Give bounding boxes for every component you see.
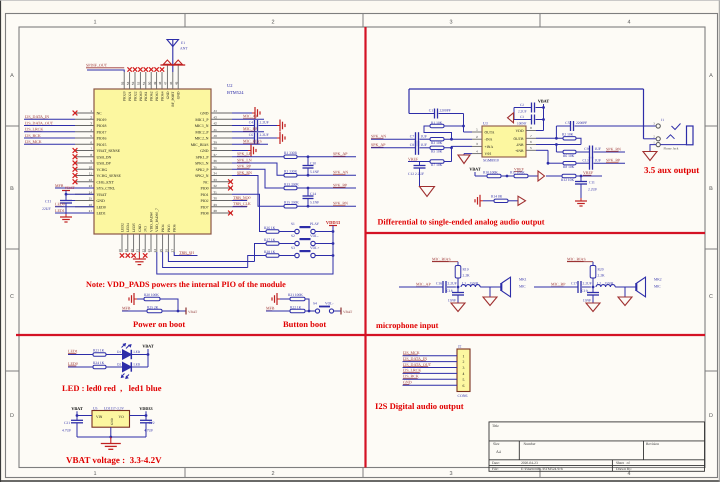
ground right of C4	[277, 120, 285, 132]
svg-text:USB_DN: USB_DN	[97, 155, 112, 159]
wire VDD_PADS rail to VDD33	[157, 252, 333, 274]
zone ticks left	[6, 126, 20, 371]
svg-text:C9: C9	[584, 147, 588, 151]
net label I2S_DATA_OUT wire	[24, 120, 75, 125]
antenna E1	[167, 40, 188, 73]
svg-text:VDD_PADS0: VDD_PADS0	[149, 212, 153, 232]
ground right of C6	[277, 132, 285, 144]
svg-text:R21 100K: R21 100K	[288, 293, 303, 297]
svg-text:GND: GND	[97, 199, 105, 203]
svg-text:43: 43	[214, 115, 218, 119]
net label I2S_LRCK wire to J2	[403, 368, 458, 374]
svg-text:VBAT: VBAT	[188, 310, 198, 314]
svg-text:27: 27	[170, 249, 174, 253]
microphone circuit MK1	[399, 256, 527, 311]
svg-text:3: 3	[449, 471, 452, 477]
svg-text:21: 21	[136, 249, 140, 253]
pushbutton S3 VOL+	[291, 246, 333, 258]
net label I2S_DATA_IN wire	[24, 114, 75, 119]
power VBAT regulator	[71, 406, 83, 417]
led D1 red	[117, 344, 141, 360]
svg-text:SPK1_P: SPK1_P	[196, 155, 209, 159]
svg-text:Button boot: Button boot	[283, 319, 326, 329]
svg-text:40: 40	[214, 134, 218, 138]
svg-text:Differential to single-ended a: Differential to single-ended analog audi…	[378, 218, 545, 227]
svg-text:PIO16: PIO16	[97, 137, 107, 141]
no-connect X marks left pins	[73, 111, 78, 185]
svg-text:31: 31	[214, 190, 218, 194]
svg-text:PIO64: PIO64	[160, 91, 164, 101]
svg-text:29: 29	[214, 203, 218, 207]
resistor R26 1K	[264, 226, 295, 233]
svg-text:C12 2.2UF: C12 2.2UF	[408, 172, 424, 176]
wire VO to VDD33	[130, 414, 148, 417]
svg-text:12: 12	[89, 178, 93, 182]
svg-text:1: 1	[463, 354, 465, 358]
svg-text:PIO17: PIO17	[97, 130, 107, 134]
svg-text:A4: A4	[496, 450, 501, 454]
net label I2S_MCK wire	[24, 139, 75, 144]
svg-text:LED0: LED0	[68, 361, 78, 366]
net label I2S_DATA_OUT wire to J2	[403, 362, 458, 368]
svg-text:18: 18	[118, 249, 122, 253]
svg-text:SPK_RN: SPK_RN	[237, 170, 252, 175]
svg-text:R2 10K: R2 10K	[562, 133, 574, 137]
net label MFB power-on-boot	[122, 306, 147, 311]
svg-text:MIC: MIC	[654, 284, 661, 288]
svg-text:MIC1_P: MIC1_P	[195, 118, 208, 122]
svg-text:3V3: 3V3	[144, 226, 148, 232]
svg-text:15: 15	[89, 197, 93, 201]
net label SPK_RN	[237, 170, 252, 175]
capacitor C21 4.7UF	[62, 416, 83, 438]
svg-text:R11 100K: R11 100K	[510, 170, 525, 174]
net label I2S_BCK wire	[24, 133, 75, 138]
caption LED led0 red led1 blue	[62, 383, 162, 393]
svg-text:B: B	[709, 186, 713, 192]
svg-text:SPK_BN: SPK_BN	[606, 146, 621, 151]
svg-text:VOL+: VOL+	[310, 246, 319, 250]
svg-text:File:: File:	[492, 467, 499, 471]
svg-text:C18: C18	[447, 289, 453, 293]
power VBAT at C11	[62, 186, 75, 194]
svg-text:1: 1	[93, 20, 96, 26]
svg-text:S1: S1	[291, 222, 295, 226]
ic U2 left pins 1-17	[75, 109, 121, 215]
svg-text:28: 28	[214, 209, 218, 213]
svg-text:MIC_AP: MIC_AP	[416, 282, 431, 287]
capacitor C5 2200PF	[556, 121, 656, 131]
power VBAT VREF ladder	[469, 167, 481, 177]
svg-text:MIC_BP: MIC_BP	[551, 282, 566, 287]
title block texts	[492, 424, 659, 471]
caption I2S Digital audio output	[375, 401, 464, 411]
resistor R1 330R	[232, 151, 356, 158]
svg-text:R12 10K: R12 10K	[561, 178, 574, 182]
net label I2S_LRCK wire	[24, 127, 75, 132]
svg-text:L1: L1	[462, 281, 466, 285]
wire VDD_PADS0_7 rail to R28	[163, 252, 248, 268]
svg-text:26: 26	[165, 249, 169, 253]
svg-text:VOL-: VOL-	[325, 301, 334, 305]
svg-text:ANT: ANT	[180, 47, 188, 51]
net label VREF B-side	[583, 170, 594, 175]
svg-text:MFB: MFB	[55, 183, 64, 188]
ground right pin44	[252, 107, 260, 119]
svg-text:PIO62: PIO62	[150, 91, 154, 101]
svg-text:MFB: MFB	[266, 306, 275, 311]
svg-text:54: 54	[126, 81, 130, 85]
wire PIO4 rail to R27	[168, 252, 254, 262]
svg-text:MIC2_P: MIC2_P	[195, 130, 208, 134]
ground triangle jack	[643, 152, 657, 161]
resistor R3a 10K	[430, 138, 472, 145]
svg-text:U3: U3	[483, 122, 488, 126]
capacitor C14 5.1NF	[303, 188, 320, 206]
resistor R11 100K	[510, 170, 538, 177]
caption Button boot	[283, 319, 326, 329]
svg-text:OUTA: OUTA	[485, 131, 495, 135]
wire VBAT pin14	[65, 193, 94, 196]
svg-text:Power on boot: Power on boot	[133, 319, 185, 329]
resistor R23 1K	[93, 349, 123, 357]
resistor R28 1K	[248, 250, 295, 267]
svg-text:33: 33	[214, 178, 218, 182]
red divider vertical	[364, 27, 366, 468]
svg-text:VIN: VIN	[96, 415, 103, 419]
svg-text:S3: S3	[291, 246, 295, 250]
microphone circuit MK2	[534, 256, 662, 311]
svg-text:2.2K: 2.2K	[598, 274, 605, 278]
svg-text:VSS: VSS	[485, 152, 492, 156]
svg-text:PIO8: PIO8	[200, 212, 208, 216]
power VBAT tag power-on-boot	[186, 308, 198, 315]
svg-text:SPK_LN: SPK_LN	[237, 158, 252, 163]
regulator U5 LD1117 body	[92, 407, 130, 428]
svg-text:C: C	[709, 294, 713, 300]
svg-text:D1: D1	[117, 350, 121, 354]
caption VBAT voltage	[66, 455, 162, 465]
resistor R10 100K	[475, 170, 514, 177]
svg-text:C21: C21	[64, 421, 70, 425]
ground left power-on-boot	[129, 293, 137, 305]
ground left button-boot	[272, 293, 280, 305]
svg-text:GND: GND	[138, 224, 142, 232]
svg-text:-INA: -INA	[485, 138, 493, 142]
svg-text:SYS_CTRL: SYS_CTRL	[97, 187, 116, 191]
wire -INB row	[536, 143, 581, 152]
svg-text:C7: C7	[410, 135, 414, 139]
caption Power on boot	[133, 319, 185, 329]
svg-text:PIO63: PIO63	[155, 91, 159, 101]
svg-text:SPK_AP: SPK_AP	[371, 142, 386, 147]
svg-text:SPK_BN: SPK_BN	[333, 201, 348, 206]
svg-text:R3 10K: R3 10K	[431, 141, 443, 145]
resistor R5 10K	[430, 146, 472, 153]
svg-text:VBAT: VBAT	[343, 310, 353, 314]
zone ticks top	[185, 14, 540, 28]
svg-text:1: 1	[93, 471, 96, 477]
svg-text:E:\Bluetooth\..\BTM524.Sch: E:\Bluetooth\..\BTM524.Sch	[521, 467, 563, 471]
svg-text:C16: C16	[436, 282, 442, 286]
svg-text:55: 55	[120, 81, 124, 85]
wire GND pin38 to ground	[232, 150, 248, 152]
svg-text:2.2UF: 2.2UF	[260, 133, 269, 137]
node SPK_BN	[307, 201, 348, 208]
svg-text:MK2: MK2	[654, 277, 662, 281]
svg-text:MIC_BIAS: MIC_BIAS	[243, 139, 262, 144]
svg-text:SGM8910: SGM8910	[483, 159, 499, 163]
svg-text:C22: C22	[149, 421, 155, 425]
wire OUTA node	[462, 114, 472, 133]
svg-text:I2S_LRCK: I2S_LRCK	[403, 368, 421, 373]
svg-text:10: 10	[89, 165, 93, 169]
svg-text:SPK_AN: SPK_AN	[333, 170, 348, 175]
svg-text:VBAT: VBAT	[469, 167, 481, 172]
svg-text:15NH: 15NH	[605, 281, 614, 285]
svg-text:PLAY: PLAY	[310, 222, 319, 226]
svg-text:C19: C19	[582, 289, 588, 293]
svg-text:22: 22	[141, 249, 145, 253]
svg-text:3: 3	[463, 366, 465, 370]
svg-text:MFB: MFB	[122, 306, 131, 311]
wire D1 to VBAT node	[131, 353, 149, 356]
net label SPDIF_OUT and wire	[86, 63, 124, 73]
net label SPK_AN input wire	[371, 134, 416, 140]
svg-text:Title: Title	[492, 424, 499, 428]
svg-text:MK1: MK1	[519, 277, 527, 281]
svg-text:R20 100K: R20 100K	[144, 293, 159, 297]
svg-text:S4: S4	[313, 301, 317, 305]
svg-text:GND: GND	[200, 149, 208, 153]
caption microphone input	[376, 321, 439, 330]
capacitor C4 2.2UF	[232, 120, 277, 131]
zone numbers bottom	[93, 471, 630, 477]
svg-text:D2: D2	[117, 362, 121, 366]
svg-text:OUTB: OUTB	[513, 137, 524, 141]
svg-text:R19: R19	[463, 268, 469, 272]
svg-text:BTM524: BTM524	[227, 90, 244, 95]
svg-text:CON6: CON6	[458, 394, 468, 398]
title block frame	[489, 422, 705, 471]
svg-text:MIC: MIC	[519, 284, 526, 288]
svg-text:2.2UF: 2.2UF	[588, 187, 597, 191]
ground right pin38	[248, 145, 256, 157]
net label TRB_NO0 wire	[232, 195, 251, 201]
svg-text:15NF: 15NF	[583, 299, 591, 303]
svg-text:R14 0R: R14 0R	[491, 195, 503, 199]
svg-text:NC: NC	[97, 112, 103, 116]
op-amp U3 left pins	[472, 128, 495, 156]
svg-text:36: 36	[214, 159, 218, 163]
svg-text:B: B	[10, 186, 14, 192]
svg-text:LED: LED	[134, 362, 141, 366]
svg-text:VDD: VDD	[516, 129, 524, 133]
svg-text:44: 44	[214, 109, 218, 113]
svg-text:1UF: 1UF	[421, 143, 427, 147]
note text VDD_PADS	[86, 280, 286, 289]
svg-text:2: 2	[463, 360, 465, 364]
svg-text:100NF: 100NF	[517, 122, 527, 126]
net label MFB button-boot	[266, 306, 290, 311]
resistor R22 1K	[290, 305, 315, 312]
net label TRB_CLK wire	[232, 201, 251, 207]
svg-text:VDD_PADS0_7: VDD_PADS0_7	[155, 208, 159, 232]
svg-text:MIC_BIAS: MIC_BIAS	[432, 256, 451, 261]
svg-text:52: 52	[137, 81, 141, 85]
net label SPK_LP	[237, 151, 252, 156]
capacitor C2 2.2UF	[514, 103, 544, 114]
svg-text:Drawn By:: Drawn By:	[616, 467, 632, 471]
svg-text:PIO2: PIO2	[200, 199, 208, 203]
svg-text:19: 19	[124, 249, 128, 253]
net label VREF wire A-side	[408, 156, 430, 161]
capacitor C22 4.7UF	[140, 416, 155, 438]
svg-text:I2S_BCK: I2S_BCK	[403, 374, 419, 379]
svg-text:GND: GND	[166, 91, 170, 99]
no-connect X marks top pins	[127, 67, 164, 71]
svg-text:VO: VO	[119, 415, 125, 419]
svg-text:C6: C6	[249, 133, 253, 137]
svg-text:PIO22: PIO22	[133, 91, 137, 101]
svg-text:PIO6: PIO6	[173, 224, 177, 232]
svg-text:SPK_AN: SPK_AN	[371, 134, 386, 139]
capacitor C13 1UF	[583, 157, 626, 170]
wire GND pin15	[66, 200, 75, 202]
svg-text:PIO21: PIO21	[128, 91, 132, 101]
svg-text:VBAT: VBAT	[97, 193, 108, 197]
svg-text:GND: GND	[403, 380, 412, 385]
svg-text:Date:: Date:	[492, 461, 500, 465]
net label MIC_BIAS wire	[232, 139, 268, 145]
svg-text:VBAT: VBAT	[65, 186, 76, 190]
svg-text:R10 100K: R10 100K	[483, 170, 498, 174]
svg-text:2.2UF: 2.2UF	[583, 282, 592, 286]
svg-text:C2: C2	[520, 103, 524, 107]
power triangle right of R14	[518, 196, 526, 205]
svg-text:VBAT voltage : 3.3-4.2V: VBAT voltage : 3.3-4.2V	[66, 455, 162, 465]
svg-text:4: 4	[463, 372, 465, 376]
resistor R20 100K	[137, 293, 178, 311]
svg-text:MIC1_N: MIC1_N	[195, 124, 209, 128]
svg-text:C3: C3	[520, 115, 524, 119]
svg-text:TRB_NO0: TRB_NO0	[233, 195, 251, 200]
svg-text:PIO0: PIO0	[200, 187, 208, 191]
svg-text:C13: C13	[583, 158, 589, 162]
svg-text:PIO61: PIO61	[144, 91, 148, 101]
svg-text:I2S_DATA_OUT: I2S_DATA_OUT	[403, 362, 432, 367]
svg-text:GND: GND	[110, 417, 114, 425]
svg-text:E1: E1	[181, 41, 185, 45]
wire GND pin44 to ground	[232, 112, 252, 114]
svg-text:J2: J2	[458, 345, 461, 349]
net label SPK_RP	[237, 164, 252, 169]
svg-text:15NH: 15NH	[470, 281, 479, 285]
net label LED1 wire pin17	[55, 208, 94, 213]
svg-text:15NF: 15NF	[448, 299, 456, 303]
svg-text:37: 37	[214, 153, 218, 157]
svg-text:SPK_RP: SPK_RP	[237, 164, 252, 169]
svg-text:Sheet of: Sheet of	[616, 461, 630, 465]
svg-text:R13 330R: R13 330R	[284, 182, 299, 186]
svg-text:LED0: LED0	[97, 205, 106, 209]
svg-text:PIO20: PIO20	[123, 91, 127, 101]
svg-text:USB_DP: USB_DP	[97, 162, 111, 166]
wire ground rail regulator	[77, 427, 146, 438]
svg-text:VBAT_SENSE: VBAT_SENSE	[97, 149, 121, 153]
capacitor C8 1UF	[410, 141, 430, 155]
net label LED1 wire led	[68, 348, 93, 354]
svg-text:LED2: LED2	[120, 223, 124, 232]
wire OUTB node	[536, 126, 563, 140]
svg-text:D: D	[709, 413, 713, 419]
svg-text:VDD33: VDD33	[326, 220, 341, 225]
svg-text:R24 1K: R24 1K	[93, 361, 105, 365]
wire loop down to jack pin2	[644, 89, 657, 139]
zone letters left	[10, 73, 14, 419]
svg-text:LED4: LED4	[126, 223, 130, 232]
svg-text:SPK_BP: SPK_BP	[606, 158, 621, 163]
svg-text:1UF: 1UF	[421, 135, 427, 139]
svg-text:Size: Size	[493, 442, 500, 446]
svg-text:LED0: LED0	[55, 202, 65, 207]
svg-text:LED1: LED1	[68, 348, 78, 353]
svg-text:+INB: +INB	[515, 149, 524, 153]
ground under ic pin 21	[133, 252, 146, 265]
svg-text:VREF: VREF	[583, 170, 594, 175]
svg-text:PIO60: PIO60	[139, 91, 143, 101]
svg-text:PIO1: PIO1	[200, 193, 208, 197]
svg-text:MIC_BIAS: MIC_BIAS	[191, 143, 209, 147]
svg-text:2: 2	[271, 471, 274, 477]
resistor R7 10K	[430, 160, 452, 167]
resistor R6 10K	[556, 150, 589, 158]
svg-text:L2: L2	[597, 281, 601, 285]
pushbutton S2 VOL-	[291, 234, 333, 246]
svg-text:2.2K: 2.2K	[463, 274, 470, 278]
wire VDD pin8	[536, 130, 544, 132]
svg-text:SPK_AP: SPK_AP	[333, 151, 348, 156]
zone ticks bottom	[185, 468, 540, 478]
svg-text:VBAT: VBAT	[71, 406, 83, 411]
capacitor C1 2200PF	[409, 108, 464, 118]
svg-text:R20: R20	[598, 268, 604, 272]
svg-text:C11: C11	[45, 200, 51, 204]
svg-text:2.2UF: 2.2UF	[260, 121, 269, 125]
resistor R3 330R	[232, 163, 356, 177]
resistor R27 1K	[255, 238, 295, 261]
svg-text:38: 38	[214, 147, 218, 151]
capacitor C12 2.2UF	[408, 162, 426, 187]
ic U2 bottom pins 18-27	[118, 208, 176, 252]
svg-text:R7 10K: R7 10K	[431, 163, 443, 167]
svg-text:25: 25	[159, 249, 163, 253]
net label MFB wire pin13	[55, 183, 94, 188]
svg-text:47: 47	[164, 81, 168, 85]
ground top pin 46 GND	[160, 60, 174, 65]
svg-text:4: 4	[627, 20, 630, 26]
svg-text:2020-04-23: 2020-04-23	[521, 461, 538, 465]
svg-text:A: A	[709, 73, 713, 79]
power VDD33	[326, 220, 341, 232]
capacitor C9 1UF	[584, 146, 625, 159]
ground triangle VSS	[458, 154, 472, 164]
jack pin1 to ground	[650, 145, 656, 152]
ground below C11	[60, 214, 72, 222]
svg-text:VCHG: VCHG	[97, 168, 108, 172]
svg-text:1UF: 1UF	[595, 147, 601, 151]
svg-text:R23 1K: R23 1K	[93, 349, 105, 353]
